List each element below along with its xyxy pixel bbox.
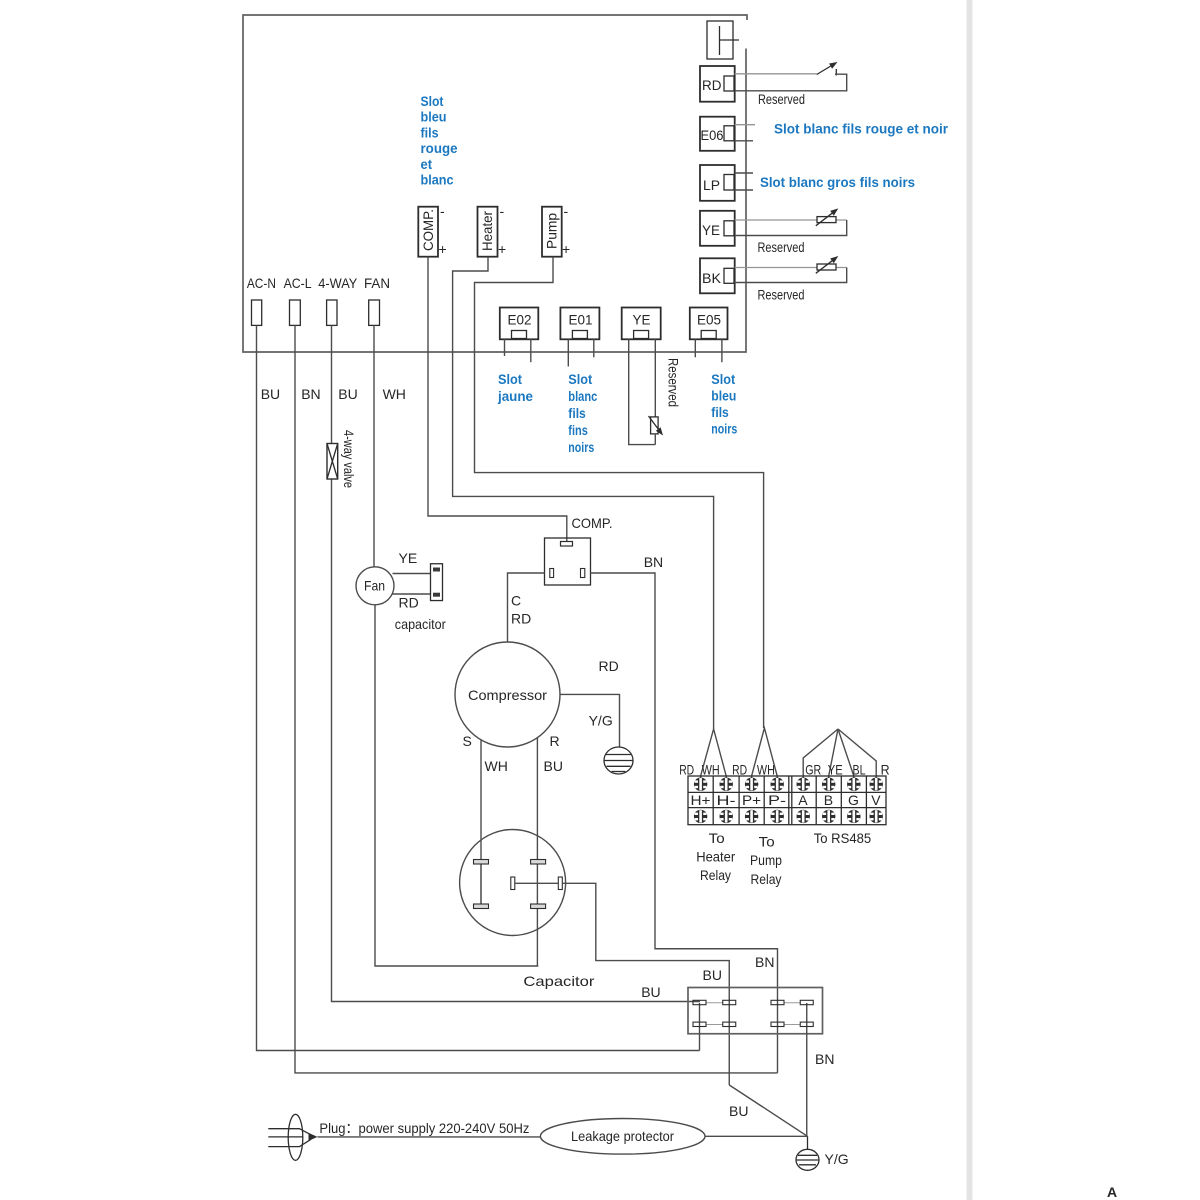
wire plug to leakage protector bbox=[318, 1136, 541, 1138]
svg-text:Slot: Slot bbox=[498, 371, 522, 387]
connector E02 bbox=[500, 308, 539, 340]
svg-text:BN: BN bbox=[815, 1051, 834, 1067]
svg-text:+: + bbox=[498, 241, 506, 257]
TB3 pole 3 (BN through) bbox=[771, 1000, 784, 1026]
note slot bleu fils rouge et blanc bbox=[421, 93, 458, 188]
wire E06 stub bottom bbox=[735, 140, 753, 142]
wire AC-N (BU) bbox=[257, 325, 700, 1050]
relay output Pump bbox=[542, 207, 562, 257]
terminal screws top row bbox=[694, 778, 883, 791]
run capacitor C2 bbox=[460, 830, 566, 936]
svg-text:BN: BN bbox=[755, 954, 774, 970]
svg-text:RD: RD bbox=[511, 611, 531, 627]
connector E06 bbox=[700, 117, 735, 151]
svg-text:A: A bbox=[798, 792, 808, 808]
svg-text:Slot blanc fils rouge et noir: Slot blanc fils rouge et noir bbox=[774, 121, 949, 137]
svg-text:Reserved: Reserved bbox=[758, 287, 805, 303]
svg-text:BU: BU bbox=[338, 386, 357, 402]
svg-text:-: - bbox=[564, 203, 569, 219]
svg-text:B: B bbox=[824, 792, 833, 808]
svg-text:E06: E06 bbox=[701, 127, 724, 143]
wire 4-WAY (BU) bbox=[332, 325, 701, 1001]
wire Heater relay down bbox=[453, 257, 714, 729]
wire compressor R (BU) bbox=[536, 738, 538, 966]
wire RD loop top bbox=[735, 73, 817, 75]
terminal AC-L bbox=[290, 300, 301, 325]
svg-text:RD: RD bbox=[399, 595, 419, 611]
svg-text:BK: BK bbox=[702, 270, 722, 286]
svg-text:A: A bbox=[1107, 1184, 1117, 1200]
svg-text:AC-N: AC-N bbox=[247, 275, 276, 291]
wire plug C (RD) bbox=[508, 573, 545, 642]
RS485 field wiring fan-out bbox=[803, 729, 876, 784]
svg-text:Capacitor: Capacitor bbox=[523, 973, 594, 989]
C2 terminal R pins bbox=[531, 860, 546, 909]
relay output Heater bbox=[478, 207, 498, 257]
svg-text:BU: BU bbox=[729, 1103, 748, 1119]
TB3 link lines bbox=[706, 1003, 801, 1025]
connector LP bbox=[700, 165, 735, 201]
svg-text:G: G bbox=[848, 792, 859, 808]
terminal screws bottom row bbox=[694, 810, 883, 823]
wire LP stub top bbox=[735, 172, 753, 174]
svg-text:BN: BN bbox=[301, 386, 320, 402]
wire E05 pin2 bbox=[721, 339, 723, 362]
svg-text:4-WAY: 4-WAY bbox=[318, 275, 358, 291]
svg-text:fils: fils bbox=[421, 124, 439, 140]
svg-text:To: To bbox=[709, 830, 725, 846]
svg-text:AC-L: AC-L bbox=[284, 275, 312, 291]
svg-text:C: C bbox=[511, 593, 521, 609]
wire fan RD bbox=[393, 593, 431, 595]
svg-text:S: S bbox=[463, 733, 472, 749]
svg-text:WH: WH bbox=[757, 762, 775, 778]
svg-text:Reserved: Reserved bbox=[758, 239, 805, 255]
svg-text:V: V bbox=[871, 792, 881, 808]
svg-text:fins: fins bbox=[568, 422, 588, 438]
wire plug BN bbox=[591, 573, 778, 1073]
wire compressor RD to ground bbox=[560, 694, 620, 747]
ground (mains Y/G) bbox=[796, 1136, 819, 1170]
svg-text:Reserved: Reserved bbox=[758, 91, 805, 107]
relay output COMP. bbox=[418, 207, 438, 257]
controller board outline bbox=[243, 15, 747, 352]
svg-text:Compressor: Compressor bbox=[468, 687, 547, 703]
svg-text:To RS485: To RS485 bbox=[814, 830, 872, 846]
label To Pump Relay bbox=[750, 834, 782, 888]
svg-text:RD: RD bbox=[732, 762, 747, 778]
svg-text:bleu: bleu bbox=[421, 109, 447, 125]
mains plug bbox=[268, 1114, 317, 1160]
internal connector J0 (top symbol box) bbox=[707, 21, 739, 59]
svg-text:E01: E01 bbox=[569, 312, 593, 328]
wire LP stub bottom bbox=[735, 189, 753, 191]
svg-text:P-: P- bbox=[768, 792, 786, 808]
connector E05 bbox=[690, 308, 728, 340]
svg-text:Slot: Slot bbox=[711, 371, 735, 387]
svg-text:Heater: Heater bbox=[696, 849, 735, 865]
leakage protector bbox=[540, 1119, 705, 1155]
svg-text:Heater: Heater bbox=[479, 211, 495, 251]
svg-text:To: To bbox=[759, 834, 775, 850]
fan motor M1 bbox=[356, 567, 394, 605]
terminal labels H+ H- P+ P- A B G V bbox=[691, 792, 882, 808]
TB3 pole 4 bbox=[800, 1000, 813, 1136]
wire E02 pin1 bbox=[504, 339, 506, 356]
wire BK loop return bbox=[735, 268, 847, 283]
pump relay field wiring V-split bbox=[752, 728, 778, 784]
svg-text:Y/G: Y/G bbox=[825, 1151, 849, 1167]
thermistor RT1 bbox=[816, 208, 839, 225]
svg-text:fils: fils bbox=[711, 404, 729, 420]
svg-text:capacitor: capacitor bbox=[395, 616, 446, 632]
ground (compressor) bbox=[604, 747, 633, 774]
TB3 pole 2 (BU through) bbox=[723, 1000, 736, 1026]
thermistor RT3 bbox=[649, 416, 664, 445]
note slot bleu fils noirs bbox=[711, 371, 737, 437]
svg-text:Pump: Pump bbox=[544, 213, 560, 249]
svg-text:COMP.: COMP. bbox=[572, 515, 613, 531]
wire leakage protector to earth point bbox=[705, 1135, 808, 1137]
heater relay field wiring V-split bbox=[701, 729, 727, 784]
svg-text:BL: BL bbox=[853, 762, 866, 778]
svg-text:-: - bbox=[440, 203, 445, 219]
svg-text:E02: E02 bbox=[508, 312, 532, 328]
wire fan down (to capacitor bus) bbox=[375, 605, 538, 966]
terminal AC-N bbox=[252, 300, 262, 325]
svg-text:BU: BU bbox=[641, 984, 660, 1000]
wire Pump relay down bbox=[475, 257, 764, 728]
svg-text:Slot blanc gros fils noirs: Slot blanc gros fils noirs bbox=[760, 174, 915, 190]
svg-text:Slot: Slot bbox=[421, 93, 444, 109]
svg-text:Y/G: Y/G bbox=[589, 713, 613, 729]
svg-text:fils: fils bbox=[568, 405, 586, 421]
svg-text:P+: P+ bbox=[742, 792, 761, 808]
svg-text:YE: YE bbox=[399, 550, 418, 566]
C2 center terminal pins bbox=[511, 877, 563, 890]
wire E01 pin1 bbox=[567, 339, 569, 366]
svg-text:H+: H+ bbox=[691, 792, 711, 808]
svg-text:+: + bbox=[562, 241, 570, 257]
svg-text:Plug：power supply 220-240V 50: Plug：power supply 220-240V 50Hz bbox=[319, 1120, 529, 1136]
wire BK loop top bbox=[735, 267, 847, 269]
svg-text:LP: LP bbox=[703, 177, 720, 193]
label To Heater Relay bbox=[696, 830, 735, 883]
wire YE loop top bbox=[735, 219, 847, 221]
wire E06 stub top bbox=[735, 124, 755, 126]
svg-text:WH: WH bbox=[702, 762, 720, 778]
wire YE2 pin1 down bbox=[629, 339, 656, 444]
svg-text:Relay: Relay bbox=[700, 867, 731, 883]
wire E05 pin1 bbox=[694, 339, 696, 357]
svg-text:YE: YE bbox=[828, 762, 843, 778]
C2 terminal S pins bbox=[474, 860, 489, 909]
svg-text:Leakage protector: Leakage protector bbox=[571, 1128, 674, 1144]
svg-text:Slot: Slot bbox=[568, 371, 592, 387]
svg-text:R: R bbox=[881, 762, 890, 778]
svg-text:YE: YE bbox=[702, 222, 720, 238]
compressor M2 bbox=[455, 642, 560, 747]
svg-text:blanc: blanc bbox=[568, 388, 597, 404]
wire BU diagonal to earth point bbox=[729, 1085, 807, 1136]
connector BK (sensor) bbox=[700, 258, 735, 293]
terminal FAN bbox=[369, 300, 380, 325]
svg-text:BN: BN bbox=[644, 554, 663, 570]
terminal strip TB1 (H+ H- P+ P-) / TB2 (A B G V) bbox=[688, 776, 886, 825]
svg-text:RD: RD bbox=[599, 658, 619, 674]
svg-text:COMP.: COMP. bbox=[420, 209, 436, 251]
wire compressor S (WH) bbox=[480, 740, 482, 860]
wire fan YE bbox=[393, 573, 431, 575]
TB3 pole 1 bbox=[693, 1000, 706, 1050]
svg-text:blanc: blanc bbox=[421, 172, 454, 188]
terminal 4-WAY bbox=[327, 300, 337, 325]
svg-text:noirs: noirs bbox=[568, 439, 594, 455]
wire COMP relay to COMP plug bbox=[428, 257, 567, 542]
svg-text:4-way valve: 4-way valve bbox=[341, 430, 357, 488]
wire FAN (WH) bbox=[373, 325, 375, 567]
wire RD loop return bbox=[735, 74, 847, 91]
connector RD bbox=[700, 66, 735, 102]
page edge band bbox=[967, 0, 973, 1200]
svg-text:Pump: Pump bbox=[750, 852, 782, 868]
connector YE (sensor) bbox=[700, 211, 735, 246]
svg-text:Reserved: Reserved bbox=[666, 358, 682, 407]
svg-text:RD: RD bbox=[702, 77, 722, 93]
svg-text:Relay: Relay bbox=[751, 871, 782, 887]
svg-text:Fan: Fan bbox=[364, 578, 385, 594]
thermistor RT2 bbox=[816, 256, 839, 273]
compressor plug P1 bbox=[545, 538, 591, 585]
svg-text:WH: WH bbox=[485, 758, 508, 774]
svg-text:H-: H- bbox=[717, 792, 736, 808]
fan capacitor C1 bbox=[431, 564, 443, 601]
note slot blanc fils fins noirs bbox=[568, 371, 597, 455]
svg-text:BU: BU bbox=[544, 758, 563, 774]
4-way valve coil bbox=[327, 444, 338, 480]
wire YE2 pin2 down bbox=[654, 339, 656, 416]
wire E01 pin2 bbox=[593, 339, 595, 357]
wire E02 pin2 bbox=[530, 339, 532, 362]
switch S1 (reserved) bbox=[817, 62, 838, 76]
svg-text:BU: BU bbox=[261, 386, 280, 402]
svg-text:noirs: noirs bbox=[711, 421, 737, 437]
svg-text:GR: GR bbox=[805, 762, 821, 778]
svg-text:+: + bbox=[439, 241, 447, 257]
svg-text:RD: RD bbox=[679, 762, 694, 778]
leakage protector terminal block TB3 bbox=[688, 988, 823, 1034]
svg-text:rouge: rouge bbox=[421, 140, 458, 156]
wire C2 output (BU) bbox=[562, 883, 729, 1085]
connector E01 bbox=[560, 308, 599, 340]
svg-text:et: et bbox=[421, 156, 433, 172]
connector YE2 bbox=[622, 308, 661, 340]
svg-text:jaune: jaune bbox=[497, 388, 533, 404]
svg-text:FAN: FAN bbox=[364, 275, 390, 291]
svg-text:E05: E05 bbox=[697, 312, 721, 328]
wire YE loop return bbox=[735, 220, 847, 236]
svg-text:YE: YE bbox=[633, 312, 651, 328]
note slot jaune bbox=[497, 371, 533, 404]
svg-text:R: R bbox=[550, 733, 560, 749]
wire AC-L (BN) bbox=[295, 325, 778, 1073]
svg-text:bleu: bleu bbox=[711, 388, 736, 404]
svg-text:BU: BU bbox=[703, 967, 722, 983]
svg-text:WH: WH bbox=[383, 386, 406, 402]
svg-text:-: - bbox=[500, 203, 505, 219]
